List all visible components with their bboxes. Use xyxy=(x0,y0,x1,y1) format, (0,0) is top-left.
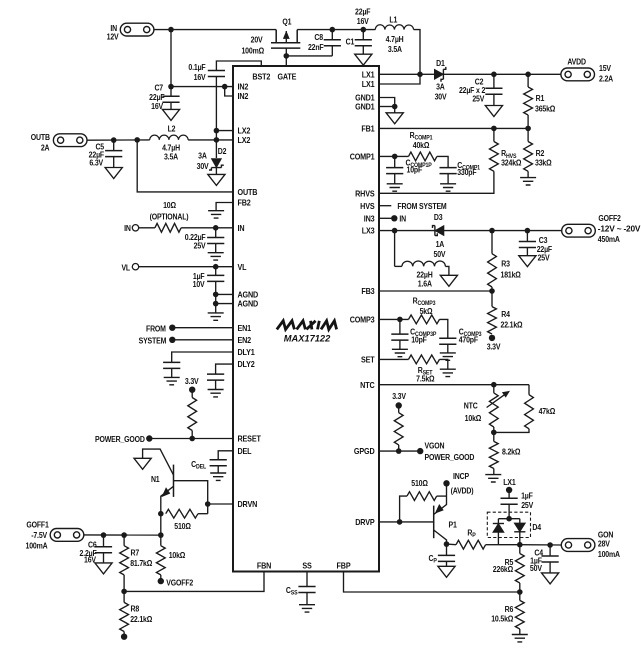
node IN pin xyxy=(213,225,219,231)
wire D4 bottom rail xyxy=(498,544,519,546)
terminal FROM (EN1) xyxy=(146,324,233,334)
pin label FBP (bottom) xyxy=(337,561,351,571)
pin label DLY1 (left) xyxy=(238,348,256,358)
svg-text:3.5A: 3.5A xyxy=(388,44,403,54)
ground 0.22uF xyxy=(208,253,224,260)
svg-text:GOFF2: GOFF2 xyxy=(598,213,620,223)
ground 8.2k xyxy=(485,475,501,482)
node IN2 junction xyxy=(222,84,228,90)
svg-text:47kΩ: 47kΩ xyxy=(539,406,556,416)
ground L3 xyxy=(440,275,457,286)
terminal SYSTEM (EN2) xyxy=(139,336,233,346)
svg-text:FB2: FB2 xyxy=(238,198,252,208)
svg-text:POWER_GOOD: POWER_GOOD xyxy=(95,435,145,445)
svg-text:GPGD: GPGD xyxy=(354,447,375,457)
wire GND1 pins xyxy=(379,98,395,113)
pin label SET (right) xyxy=(361,355,375,365)
svg-text:3.3V: 3.3V xyxy=(392,391,407,401)
svg-text:450mA: 450mA xyxy=(598,234,621,244)
svg-text:DRVN: DRVN xyxy=(238,500,258,510)
pin label OUTB (left) xyxy=(238,187,258,197)
node RESET junction xyxy=(189,436,195,442)
svg-text:33kΩ: 33kΩ xyxy=(535,158,552,168)
svg-text:N1: N1 xyxy=(151,474,160,484)
svg-text:COMP1: COMP1 xyxy=(350,152,376,162)
node P1 collector xyxy=(444,541,450,547)
output connector GOFF2 xyxy=(562,213,641,244)
svg-text:30V: 30V xyxy=(197,161,210,171)
ground C4 xyxy=(542,573,559,584)
svg-text:LX1: LX1 xyxy=(503,477,516,487)
wire IN2 pin2 elbow xyxy=(225,87,233,96)
pin label AGND (left) xyxy=(238,299,259,309)
pin label GPGD (right) xyxy=(354,447,375,457)
resistor 8.2k xyxy=(489,432,520,474)
ground AGND xyxy=(208,313,224,320)
svg-text:3.3V: 3.3V xyxy=(487,342,502,352)
capacitor C4 xyxy=(530,542,559,573)
svg-text:Q1: Q1 xyxy=(282,17,292,27)
svg-text:DLY1: DLY1 xyxy=(238,348,256,358)
diode D3 xyxy=(433,213,562,259)
pin label AGND (left) xyxy=(238,290,259,300)
svg-text:D2: D2 xyxy=(218,147,227,157)
resistor 510ohm DRVN xyxy=(166,509,208,531)
svg-text:(OPTIONAL): (OPTIONAL) xyxy=(150,212,189,222)
svg-text:50V: 50V xyxy=(434,249,447,259)
pin label FBN (bottom) xyxy=(257,561,272,571)
svg-text:D1: D1 xyxy=(436,58,445,68)
node LX3/R3 xyxy=(489,228,495,234)
wire DRVP row xyxy=(379,521,434,523)
svg-text:365kΩ: 365kΩ xyxy=(535,104,555,114)
svg-text:P1: P1 xyxy=(449,520,458,530)
svg-text:SS: SS xyxy=(302,561,311,571)
ground CCOMP3 xyxy=(440,353,456,360)
svg-text:DRVP: DRVP xyxy=(355,517,374,527)
wire LX2 pin2 xyxy=(216,131,233,140)
label FROM SYSTEM (HVS) xyxy=(397,201,446,211)
svg-text:GOFF1: GOFF1 xyxy=(26,520,49,530)
node DRVP xyxy=(397,519,403,525)
ground C3 xyxy=(519,256,536,267)
svg-text:FB1: FB1 xyxy=(361,124,375,134)
wire GOFF1 row xyxy=(84,534,161,536)
terminal R4 bottom 3.3V xyxy=(487,335,502,352)
svg-text:181kΩ: 181kΩ xyxy=(501,270,521,280)
node VL pin xyxy=(213,264,219,270)
output connector OUTB xyxy=(31,133,87,153)
node DRVN xyxy=(205,501,211,507)
transistor P1 xyxy=(434,483,458,544)
input connector IN xyxy=(107,23,154,42)
svg-text:10Ω: 10Ω xyxy=(163,201,176,211)
wire NTC row xyxy=(379,384,529,386)
node NTC xyxy=(491,382,497,388)
ground CCOMP3P xyxy=(392,349,408,356)
svg-text:IN3: IN3 xyxy=(364,214,375,224)
resistor RCOMP3 xyxy=(379,296,448,338)
inductor L2 xyxy=(87,124,216,162)
svg-text:DEL: DEL xyxy=(238,446,252,456)
node LX3 xyxy=(392,228,398,234)
dual diode D4 box xyxy=(487,512,542,537)
svg-text:VL: VL xyxy=(238,262,247,272)
capacitor C3 xyxy=(519,228,553,263)
node L2/OUTB return xyxy=(134,137,140,143)
svg-text:25V: 25V xyxy=(521,500,534,510)
terminal VL xyxy=(121,263,138,273)
svg-text:IN: IN xyxy=(399,214,406,224)
svg-text:MAX17122: MAX17122 xyxy=(284,333,331,343)
capacitor CSS xyxy=(286,572,316,605)
svg-text:POWER_GOOD: POWER_GOOD xyxy=(425,452,475,462)
resistor RP xyxy=(447,528,499,549)
capacitor 1uF 25V pump xyxy=(501,490,535,519)
svg-text:6.3V: 6.3V xyxy=(89,158,104,168)
svg-text:1µF: 1µF xyxy=(521,491,533,501)
svg-text:3A: 3A xyxy=(436,82,445,92)
pin label EN1 (left) xyxy=(238,323,252,333)
svg-text:22µF: 22µF xyxy=(355,7,371,17)
capacitor CP xyxy=(428,544,455,566)
svg-text:VGON: VGON xyxy=(425,441,445,451)
diode D2 xyxy=(197,140,227,175)
svg-text:22.1kΩ: 22.1kΩ xyxy=(130,614,152,624)
pin label HVS (right) xyxy=(360,201,374,211)
svg-text:22.1kΩ: 22.1kΩ xyxy=(501,320,523,330)
node AGND1 xyxy=(213,292,219,298)
resistor RSET xyxy=(379,355,448,384)
capacitor 1uF VL xyxy=(193,267,225,289)
pin label LX2 (left) xyxy=(238,126,251,136)
svg-text:LX2: LX2 xyxy=(238,126,251,136)
svg-text:FROM: FROM xyxy=(146,324,166,334)
svg-text:10kΩ: 10kΩ xyxy=(465,413,482,423)
pin label GND1 (right) xyxy=(355,93,375,103)
capacitor C8 xyxy=(308,30,341,56)
resistor RESET pullup xyxy=(188,390,197,439)
node IN junction xyxy=(168,27,174,33)
capacitor 0.22uF xyxy=(185,228,225,253)
inductor L3 22uH xyxy=(395,231,449,289)
transistor N1 xyxy=(143,449,174,514)
svg-text:OUTB: OUTB xyxy=(31,133,51,143)
pin label IN2 (left) xyxy=(238,82,249,92)
ground C5 xyxy=(105,168,122,179)
resistor R2 xyxy=(524,128,552,177)
diode D4a (up) xyxy=(493,519,504,545)
ground C2 xyxy=(485,106,502,117)
ground R6 xyxy=(512,635,528,642)
terminal IN3 xyxy=(379,214,406,224)
svg-text:HVS: HVS xyxy=(360,201,374,211)
node Q1 gate xyxy=(284,53,290,59)
resistor R6 xyxy=(491,592,524,635)
terminal INCP (AVDD) xyxy=(443,472,474,496)
svg-text:C1: C1 xyxy=(346,37,355,47)
node FB3/R3/R4 xyxy=(489,288,495,294)
capacitor CDEL xyxy=(191,451,233,473)
capacitor CCOMP1 xyxy=(440,160,481,184)
svg-text:L2: L2 xyxy=(168,124,176,134)
label MAX17122 xyxy=(284,333,331,343)
pin label VL (left) xyxy=(238,262,247,272)
svg-text:-7.5V: -7.5V xyxy=(31,531,48,541)
ground C1 xyxy=(355,54,372,65)
svg-text:NTC: NTC xyxy=(360,380,375,390)
wire N1 base to DRVN xyxy=(174,481,208,514)
wire N1 emitter down xyxy=(160,514,162,535)
svg-text:VGOFF2: VGOFF2 xyxy=(166,578,193,588)
svg-text:AGND: AGND xyxy=(238,299,259,309)
svg-text:R7: R7 xyxy=(131,548,140,558)
svg-text:470pF: 470pF xyxy=(459,335,479,345)
svg-text:4.7µH: 4.7µH xyxy=(162,143,180,153)
node N1 emitter xyxy=(158,511,164,517)
node GND1 xyxy=(392,104,398,110)
capacitor C6 xyxy=(80,532,113,564)
wire GPGD row xyxy=(379,450,420,452)
svg-text:RHVS: RHVS xyxy=(355,189,374,199)
terminal POWER_GOOD (RESET) xyxy=(95,435,153,445)
svg-text:40kΩ: 40kΩ xyxy=(413,141,430,151)
resistor R5 xyxy=(493,545,524,592)
svg-text:3A: 3A xyxy=(198,151,207,161)
svg-text:IN: IN xyxy=(124,224,131,234)
ground RSET xyxy=(440,369,456,376)
IC U1 MAX17122 body xyxy=(233,66,379,572)
svg-text:EN2: EN2 xyxy=(238,335,252,345)
diode D1 xyxy=(420,58,561,101)
wire IN rail xyxy=(154,29,276,31)
svg-text:FBP: FBP xyxy=(337,561,351,571)
svg-text:226kΩ: 226kΩ xyxy=(493,564,513,574)
node GON node xyxy=(517,542,523,548)
svg-text:IN2: IN2 xyxy=(238,92,249,102)
pin label GATE (top) xyxy=(277,72,296,82)
capacitor C1 xyxy=(346,7,372,54)
pin label DEL (left) xyxy=(238,446,252,456)
svg-text:25V: 25V xyxy=(194,241,207,251)
resistor GPGD pullup xyxy=(394,406,403,452)
ground FB2 xyxy=(208,211,224,218)
pin label FB3 (right) xyxy=(361,287,375,297)
capacitor C2 xyxy=(459,72,503,106)
node LX2-2 xyxy=(214,137,220,143)
diode D4b (down) xyxy=(514,519,525,545)
svg-text:25V: 25V xyxy=(538,253,551,263)
node C8 top xyxy=(330,27,336,33)
pin label LX1 (right) xyxy=(362,80,375,90)
svg-text:SYSTEM: SYSTEM xyxy=(139,336,167,346)
capacitor C5 xyxy=(89,137,123,168)
wire FBN xyxy=(124,572,264,592)
ground N1 collector xyxy=(134,458,151,469)
svg-text:10pF: 10pF xyxy=(411,335,427,345)
svg-text:100mA: 100mA xyxy=(598,550,621,560)
capacitor CCOMP3 xyxy=(439,327,481,353)
wire Q1 gate to GATE pin xyxy=(286,56,332,66)
svg-text:28V: 28V xyxy=(598,539,611,549)
resistor R1 xyxy=(524,72,556,129)
pin label GND1 (right) xyxy=(355,102,375,112)
svg-text:GND1: GND1 xyxy=(355,102,375,112)
node LX1 xyxy=(417,72,423,78)
capacitor DLY1 xyxy=(163,352,233,377)
svg-text:8.2kΩ: 8.2kΩ xyxy=(502,447,520,457)
svg-text:LX1: LX1 xyxy=(362,70,375,80)
ground C7 xyxy=(162,109,179,120)
ground D2 xyxy=(208,174,225,185)
node FB1/RHVS top xyxy=(491,126,497,132)
ground GND1 xyxy=(386,113,403,124)
svg-text:IN2: IN2 xyxy=(238,82,249,92)
wire RESET row xyxy=(149,438,233,440)
pin label FB2 (left) xyxy=(238,198,252,208)
resistor R3 xyxy=(488,231,521,291)
pin label IN2 (left) xyxy=(238,92,249,102)
capacitor DLY2 xyxy=(207,364,233,389)
svg-text:25V: 25V xyxy=(472,94,485,104)
resistor RCOMP1 xyxy=(379,130,448,167)
wire FB1 xyxy=(379,127,528,129)
transistor Q1 xyxy=(241,17,300,56)
pin label LX3 (right) xyxy=(362,226,375,236)
pin label DLY2 (left) xyxy=(238,360,256,370)
svg-text:30V: 30V xyxy=(435,92,448,102)
terminal LX1 (charge pump) xyxy=(503,477,516,493)
ground C6 xyxy=(95,563,112,574)
pin label COMP3 (right) xyxy=(350,315,376,325)
node AGND2 xyxy=(213,301,219,307)
svg-text:R1: R1 xyxy=(536,93,545,103)
resistor 10k VGOFF2 xyxy=(156,532,185,581)
node COMP1 xyxy=(392,154,398,160)
thermistor NTC 10k xyxy=(464,385,510,433)
svg-text:10kΩ: 10kΩ xyxy=(169,550,186,560)
svg-text:FBN: FBN xyxy=(257,561,272,571)
svg-text:81.7kΩ: 81.7kΩ xyxy=(130,558,152,568)
resistor 47k xyxy=(494,385,555,433)
pin label FB1 (right) xyxy=(361,124,375,134)
svg-text:0.1µF: 0.1µF xyxy=(188,62,206,72)
pin label DRVN (left) xyxy=(238,500,258,510)
wire D4 top rail xyxy=(498,518,519,520)
output connector GON xyxy=(561,530,620,559)
svg-text:R8: R8 xyxy=(131,604,140,614)
pin label BST2 (top) xyxy=(252,72,270,82)
svg-text:C7: C7 xyxy=(154,83,163,93)
wire LX1 pin2 xyxy=(379,74,420,84)
svg-text:IN: IN xyxy=(238,223,245,233)
svg-text:R6: R6 xyxy=(505,605,514,615)
svg-text:VL: VL xyxy=(121,263,130,273)
pin label COMP1 (right) xyxy=(350,152,376,162)
MAXIM logo xyxy=(277,321,337,330)
ground DLY2 xyxy=(208,390,224,397)
wire FB2 to ground xyxy=(216,203,233,211)
terminal VGOFF2 xyxy=(158,578,194,588)
svg-text:INCP: INCP xyxy=(453,472,469,482)
pin label SS (bottom) xyxy=(302,561,311,571)
svg-text:L1: L1 xyxy=(389,15,398,25)
node GPGD xyxy=(396,448,402,454)
terminal VGON POWER_GOOD xyxy=(417,441,475,462)
node COMP3 xyxy=(397,317,403,323)
pin label DRVP (right) xyxy=(355,517,374,527)
svg-text:D3: D3 xyxy=(434,213,443,223)
resistor R7 xyxy=(120,532,153,591)
pin label LX1 (right) xyxy=(362,70,375,80)
svg-text:10V: 10V xyxy=(193,279,206,289)
svg-text:EN1: EN1 xyxy=(238,323,252,333)
svg-text:LX2: LX2 xyxy=(238,135,251,145)
terminal R8 bottom xyxy=(121,634,127,640)
svg-text:OUTB: OUTB xyxy=(238,187,258,197)
wire FBP xyxy=(344,572,520,593)
ground DLY1 xyxy=(164,377,180,384)
svg-text:15V: 15V xyxy=(599,64,612,74)
svg-text:330pF: 330pF xyxy=(457,168,477,178)
wire HVS stub xyxy=(379,205,391,207)
pin label RESET (left) xyxy=(238,434,262,444)
svg-text:22nF: 22nF xyxy=(308,42,324,52)
ground CP xyxy=(438,566,455,577)
wire Q1 rail to C8/C1/L1 xyxy=(297,29,375,31)
svg-text:C8: C8 xyxy=(314,32,323,42)
wire FB3 xyxy=(379,290,492,292)
svg-text:R2: R2 xyxy=(536,149,545,159)
pin label NTC (right) xyxy=(360,380,375,390)
svg-text:3.3V: 3.3V xyxy=(185,376,200,386)
capacitor CCOMP1P xyxy=(386,156,432,183)
svg-text:1.6A: 1.6A xyxy=(418,279,433,289)
capacitor C7 xyxy=(149,83,233,111)
resistor RHVS xyxy=(379,128,521,193)
node FB1/R2 top xyxy=(525,126,531,132)
svg-text:GATE: GATE xyxy=(277,72,296,82)
terminal IN (optional input) xyxy=(124,224,139,234)
node D4 pump xyxy=(506,516,512,522)
pin label IN3 (right) xyxy=(364,214,375,224)
svg-text:2A: 2A xyxy=(41,143,50,153)
svg-text:LX3: LX3 xyxy=(362,226,375,236)
svg-text:BST2: BST2 xyxy=(252,72,270,82)
svg-text:(AVDD): (AVDD) xyxy=(451,486,474,496)
svg-text:510Ω: 510Ω xyxy=(411,478,428,488)
ground R2 xyxy=(520,178,536,185)
resistor R8 xyxy=(120,591,153,636)
svg-text:-12V ~ -20V: -12V ~ -20V xyxy=(598,225,641,234)
svg-text:4.7µH: 4.7µH xyxy=(386,34,404,44)
svg-text:50V: 50V xyxy=(530,564,543,574)
wire LX3 row xyxy=(379,230,435,232)
wire AGND pins xyxy=(216,281,233,313)
svg-text:20V: 20V xyxy=(251,35,264,45)
wire LX1 pin1 xyxy=(379,73,420,75)
resistor 10ohm optional xyxy=(139,201,233,233)
node R5/R6 FBP xyxy=(517,589,523,595)
svg-text:510Ω: 510Ω xyxy=(174,522,191,532)
capacitor CCOMP3P xyxy=(391,319,436,349)
svg-text:16V: 16V xyxy=(357,16,370,26)
svg-text:5kΩ: 5kΩ xyxy=(420,306,433,316)
svg-text:7.5kΩ: 7.5kΩ xyxy=(416,374,434,384)
svg-text:100mΩ: 100mΩ xyxy=(241,46,264,56)
svg-text:3.5A: 3.5A xyxy=(164,152,179,162)
node R7/R8 junction xyxy=(121,589,127,595)
